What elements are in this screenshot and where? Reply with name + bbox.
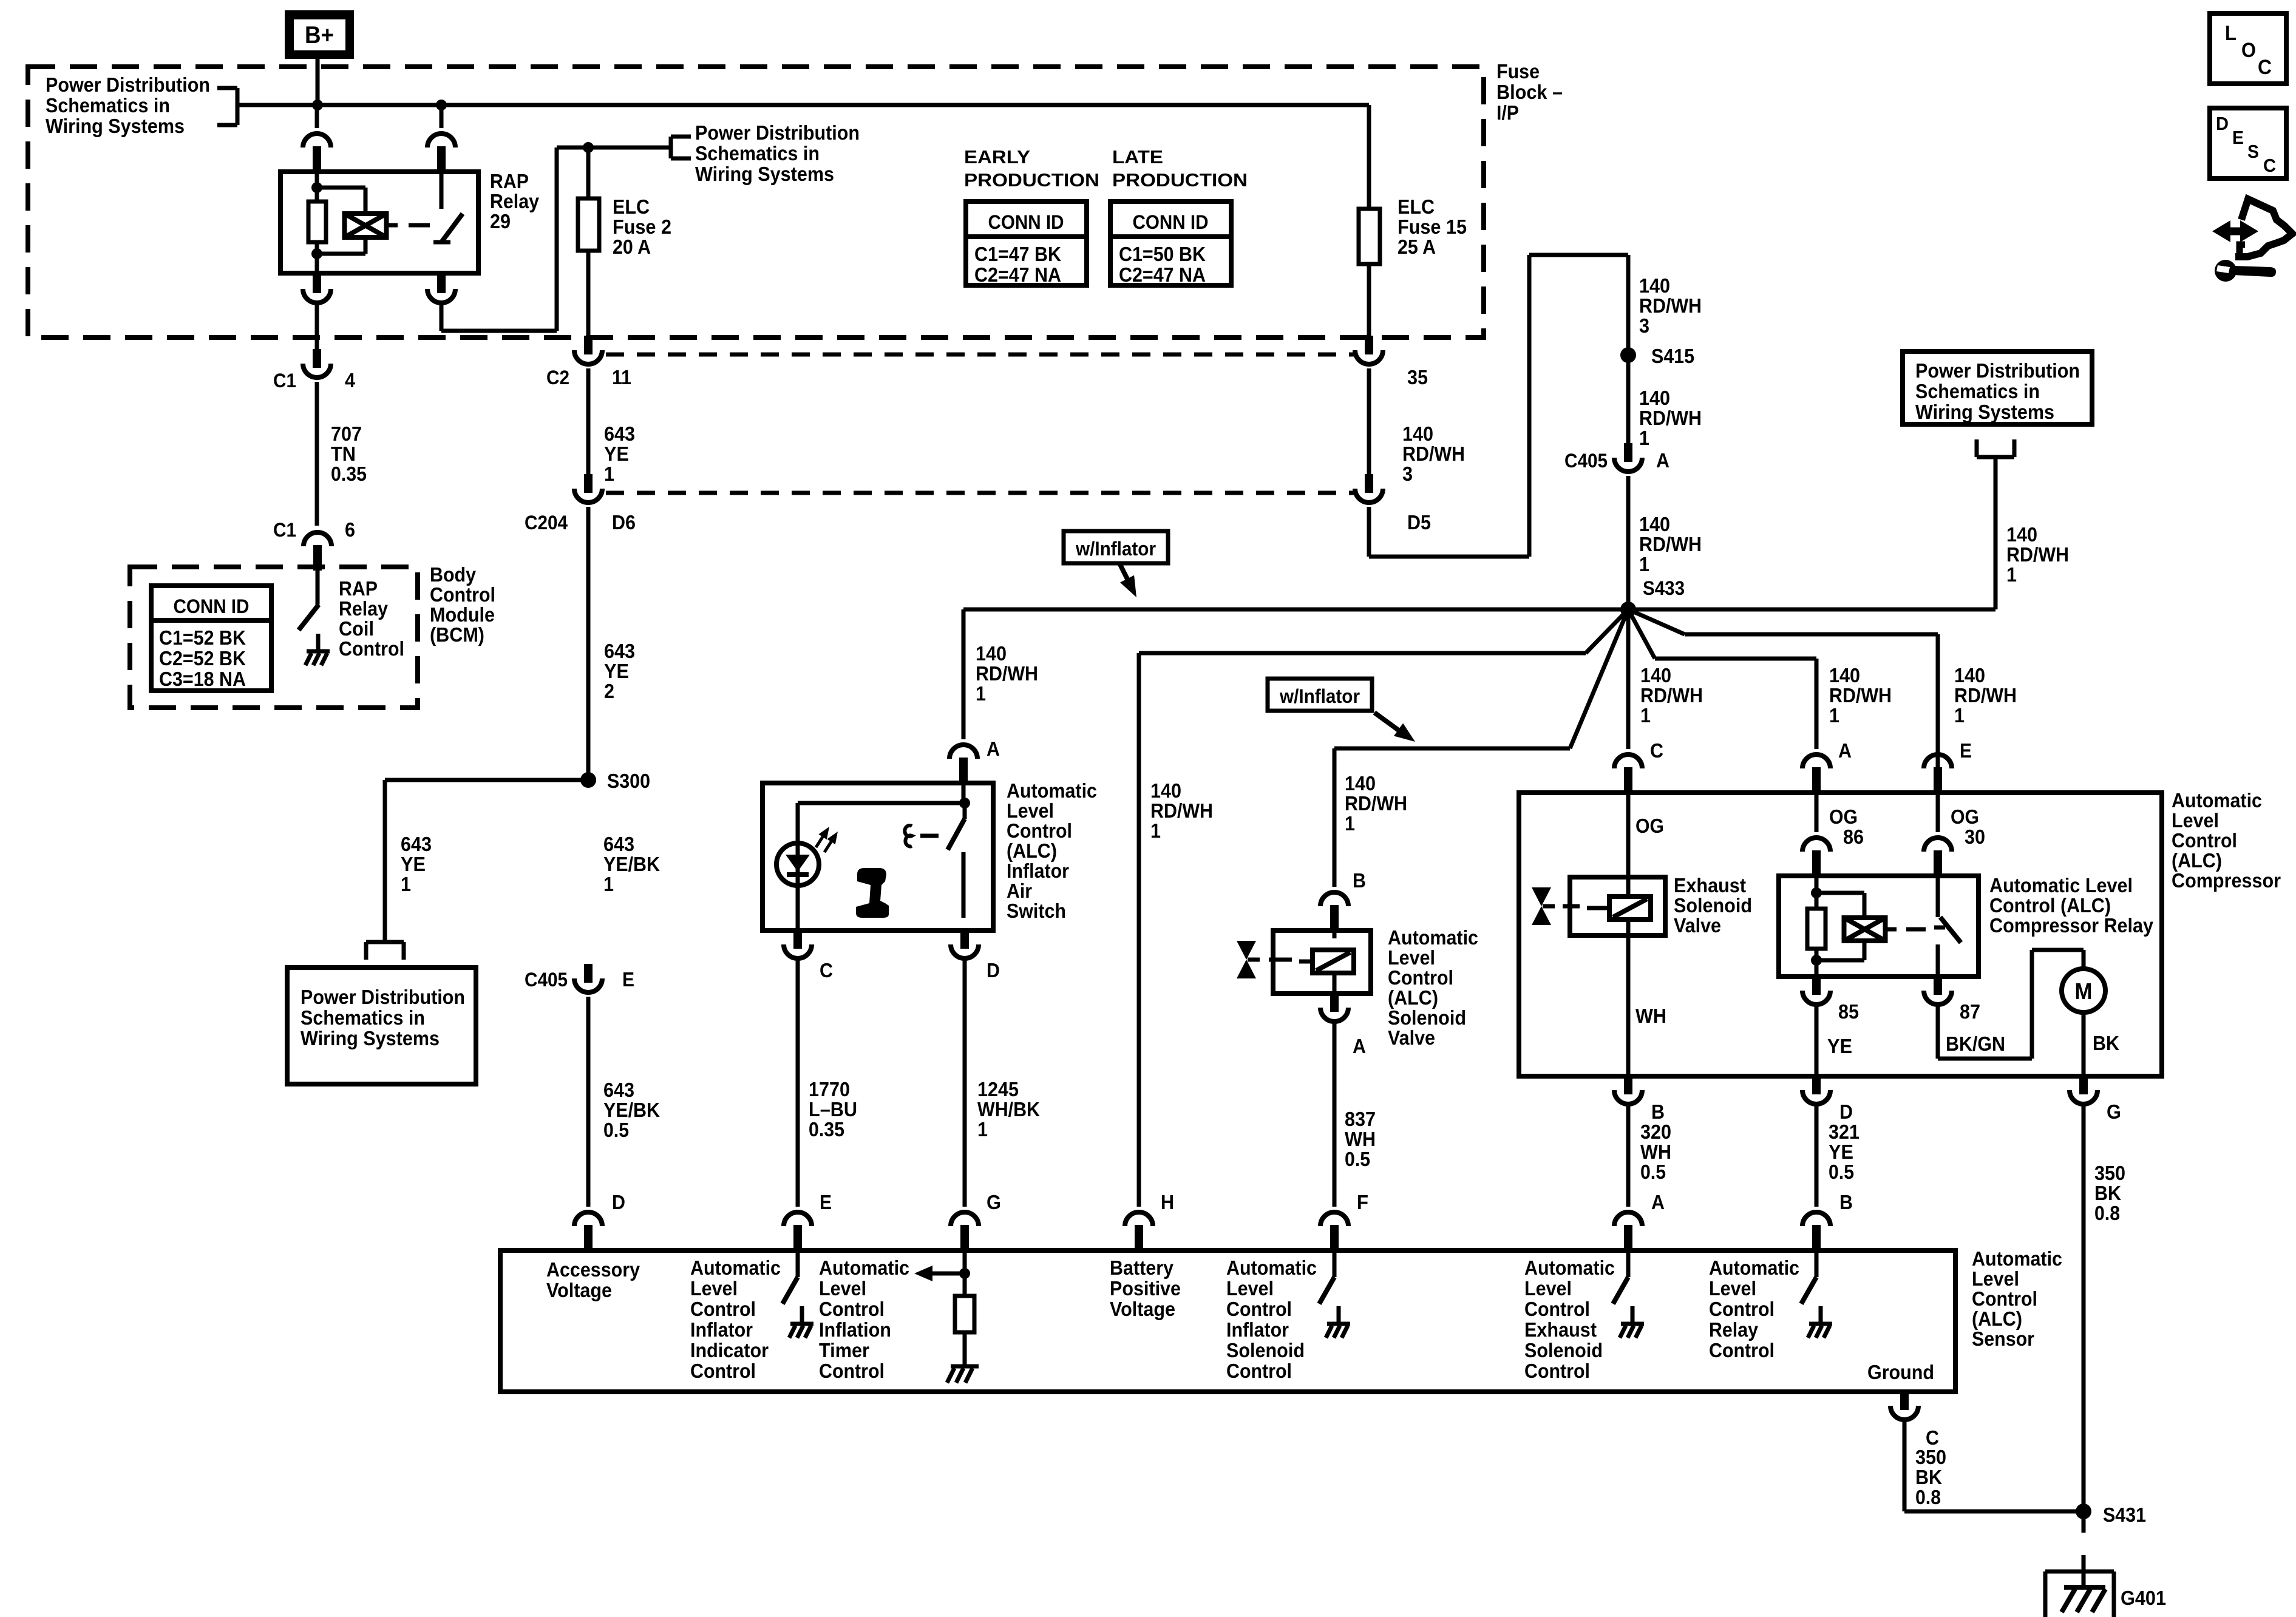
svg-text:643: 643 — [603, 833, 634, 855]
svg-text:C1: C1 — [273, 519, 296, 541]
svg-text:140: 140 — [1639, 513, 1670, 535]
svg-text:(ALC): (ALC) — [1388, 986, 1438, 1009]
svg-text:G: G — [987, 1191, 1001, 1213]
svg-text:140: 140 — [976, 642, 1007, 665]
svg-text:E: E — [820, 1191, 832, 1213]
svg-text:Timer: Timer — [819, 1339, 869, 1361]
svg-text:Control: Control — [339, 637, 404, 660]
svg-text:RD/WH: RD/WH — [1402, 442, 1465, 465]
svg-text:1: 1 — [1639, 427, 1649, 449]
svg-text:20 A: 20 A — [613, 236, 651, 258]
svg-text:RD/WH: RD/WH — [2006, 543, 2069, 566]
svg-text:1: 1 — [1345, 812, 1355, 835]
svg-text:1: 1 — [976, 682, 986, 705]
svg-text:1: 1 — [2006, 563, 2017, 586]
svg-text:Schematics in: Schematics in — [301, 1006, 425, 1029]
svg-text:140: 140 — [1640, 664, 1671, 686]
svg-text:OG: OG — [1951, 805, 1979, 828]
svg-text:(ALC): (ALC) — [2172, 849, 2222, 872]
svg-text:Schematics in: Schematics in — [695, 142, 820, 164]
svg-text:Control (ALC): Control (ALC) — [1989, 894, 2111, 917]
svg-text:Compressor: Compressor — [2172, 869, 2281, 892]
svg-text:Automatic: Automatic — [2172, 789, 2262, 812]
svg-text:Power Distribution: Power Distribution — [1915, 359, 2080, 382]
svg-text:Air: Air — [1007, 880, 1032, 902]
svg-text:Automatic: Automatic — [1524, 1256, 1615, 1279]
svg-text:Relay: Relay — [490, 190, 540, 212]
svg-text:140: 140 — [1402, 422, 1433, 445]
svg-text:H: H — [1161, 1191, 1174, 1213]
svg-text:Automatic: Automatic — [1972, 1247, 2062, 1270]
svg-text:S415: S415 — [1651, 345, 1694, 367]
svg-text:35: 35 — [1407, 366, 1428, 388]
svg-text:3: 3 — [1639, 314, 1649, 337]
svg-text:RD/WH: RD/WH — [1150, 799, 1213, 822]
svg-text:Level: Level — [1226, 1277, 1274, 1300]
svg-text:RD/WH: RD/WH — [1345, 792, 1407, 815]
svg-text:RD/WH: RD/WH — [1639, 533, 1702, 555]
svg-text:F: F — [1357, 1191, 1368, 1213]
svg-text:643: 643 — [604, 422, 635, 445]
svg-text:C204: C204 — [525, 512, 568, 534]
svg-text:140: 140 — [1829, 664, 1860, 686]
svg-text:A: A — [1838, 739, 1852, 762]
svg-text:YE: YE — [604, 442, 629, 465]
svg-text:Coil: Coil — [339, 617, 374, 640]
svg-text:D: D — [612, 1191, 625, 1213]
svg-text:11: 11 — [612, 366, 631, 388]
svg-text:Sensor: Sensor — [1972, 1327, 2034, 1350]
svg-text:0.5: 0.5 — [1640, 1161, 1666, 1183]
svg-text:PRODUCTION: PRODUCTION — [964, 169, 1099, 191]
svg-text:Positive: Positive — [1110, 1277, 1181, 1300]
svg-text:Solenoid: Solenoid — [1674, 894, 1752, 917]
svg-text:Solenoid: Solenoid — [1388, 1006, 1466, 1029]
svg-text:0.8: 0.8 — [1915, 1486, 1941, 1508]
svg-text:Control: Control — [1709, 1339, 1775, 1361]
svg-text:Control: Control — [1524, 1298, 1590, 1320]
svg-text:RAP: RAP — [490, 170, 529, 192]
svg-text:L: L — [2225, 22, 2237, 45]
svg-text:CONN ID: CONN ID — [174, 595, 250, 617]
svg-text:Automatic: Automatic — [1226, 1256, 1317, 1279]
svg-text:C2=47 NA: C2=47 NA — [974, 263, 1061, 286]
svg-text:Automatic Level: Automatic Level — [1989, 874, 2133, 897]
svg-text:350: 350 — [2094, 1162, 2125, 1184]
svg-text:S: S — [2247, 141, 2259, 162]
svg-text:WH: WH — [1640, 1141, 1671, 1163]
svg-text:Ground: Ground — [1867, 1361, 1934, 1383]
svg-text:1: 1 — [1829, 704, 1839, 727]
svg-text:Inflator: Inflator — [1226, 1318, 1289, 1341]
svg-text:M: M — [2075, 979, 2093, 1005]
svg-text:Inflation: Inflation — [819, 1318, 891, 1341]
svg-text:1770: 1770 — [809, 1078, 850, 1100]
svg-text:ELC: ELC — [1398, 195, 1435, 218]
svg-text:B: B — [1839, 1191, 1853, 1213]
svg-text:0.8: 0.8 — [2094, 1202, 2120, 1224]
svg-text:PRODUCTION: PRODUCTION — [1112, 169, 1248, 191]
svg-text:Control: Control — [430, 583, 495, 606]
svg-text:140: 140 — [1150, 779, 1181, 802]
svg-text:Level: Level — [1709, 1277, 1756, 1300]
svg-text:Schematics in: Schematics in — [46, 94, 170, 117]
svg-text:C3=18 NA: C3=18 NA — [159, 668, 246, 690]
svg-text:Block –: Block – — [1496, 81, 1563, 103]
svg-text:87: 87 — [1960, 1000, 1980, 1023]
svg-text:A: A — [987, 737, 1000, 760]
svg-text:B: B — [1651, 1100, 1665, 1123]
svg-text:BK/GN: BK/GN — [1946, 1032, 2005, 1055]
svg-text:C2=47 NA: C2=47 NA — [1119, 263, 1206, 286]
svg-text:Wiring Systems: Wiring Systems — [46, 115, 185, 137]
svg-text:WH/BK: WH/BK — [977, 1098, 1040, 1120]
svg-text:Control: Control — [1007, 819, 1072, 842]
svg-text:C1: C1 — [273, 370, 296, 392]
svg-text:1: 1 — [401, 873, 411, 895]
svg-text:643: 643 — [401, 833, 432, 855]
svg-text:RD/WH: RD/WH — [976, 662, 1038, 685]
svg-text:EARLY: EARLY — [964, 146, 1030, 168]
svg-text:1: 1 — [603, 873, 614, 895]
svg-text:1: 1 — [604, 463, 614, 485]
svg-text:TN: TN — [331, 442, 356, 465]
svg-text:1: 1 — [977, 1118, 988, 1141]
svg-text:140: 140 — [1639, 387, 1670, 409]
svg-text:Indicator: Indicator — [690, 1339, 769, 1361]
svg-text:Fuse 2: Fuse 2 — [613, 215, 671, 238]
svg-text:Wiring Systems: Wiring Systems — [301, 1027, 440, 1049]
svg-text:Control: Control — [690, 1298, 756, 1320]
svg-text:C: C — [2258, 56, 2272, 79]
svg-text:Relay: Relay — [1709, 1318, 1759, 1341]
svg-text:Accessory: Accessory — [546, 1258, 640, 1281]
svg-text:L–BU: L–BU — [809, 1098, 857, 1120]
svg-text:1245: 1245 — [977, 1078, 1019, 1100]
svg-text:Valve: Valve — [1674, 914, 1721, 937]
svg-text:Level: Level — [1524, 1277, 1572, 1300]
svg-text:D: D — [2216, 113, 2229, 134]
svg-text:BK: BK — [2094, 1182, 2121, 1204]
svg-text:0.35: 0.35 — [331, 463, 367, 485]
svg-text:Level: Level — [2172, 809, 2219, 832]
svg-text:(ALC): (ALC) — [1972, 1307, 2022, 1330]
svg-text:OG: OG — [1635, 815, 1664, 837]
svg-text:0.35: 0.35 — [809, 1118, 844, 1141]
svg-text:320: 320 — [1640, 1120, 1671, 1143]
svg-text:Inflator: Inflator — [1007, 859, 1069, 882]
svg-text:Power Distribution: Power Distribution — [695, 121, 860, 144]
svg-text:RAP: RAP — [339, 577, 378, 600]
svg-text:140: 140 — [2006, 523, 2037, 546]
svg-text:140: 140 — [1345, 772, 1376, 795]
svg-text:YE: YE — [604, 660, 629, 682]
svg-text:Automatic: Automatic — [690, 1256, 781, 1279]
svg-text:G401: G401 — [2121, 1587, 2166, 1609]
svg-text:E: E — [622, 968, 634, 991]
svg-text:1: 1 — [1150, 819, 1161, 842]
svg-text:1: 1 — [1639, 553, 1649, 575]
svg-text:Voltage: Voltage — [1110, 1298, 1175, 1320]
svg-text:0.5: 0.5 — [1829, 1161, 1854, 1183]
svg-text:(ALC): (ALC) — [1007, 839, 1057, 862]
svg-text:Automatic: Automatic — [1388, 926, 1478, 949]
svg-text:RD/WH: RD/WH — [1954, 684, 2017, 707]
svg-text:S431: S431 — [2103, 1503, 2146, 1526]
svg-text:Control: Control — [690, 1360, 756, 1382]
svg-text:Switch: Switch — [1007, 900, 1066, 922]
svg-text:Solenoid: Solenoid — [1524, 1339, 1603, 1361]
svg-text:RD/WH: RD/WH — [1829, 684, 1892, 707]
svg-text:C1=52 BK: C1=52 BK — [159, 626, 246, 649]
svg-text:Voltage: Voltage — [546, 1279, 612, 1301]
svg-text:Wiring Systems: Wiring Systems — [695, 163, 834, 185]
svg-text:E: E — [2232, 127, 2244, 148]
svg-text:Exhaust: Exhaust — [1674, 874, 1746, 897]
svg-text:B: B — [1353, 869, 1366, 892]
svg-text:Control: Control — [1226, 1298, 1292, 1320]
svg-text:YE: YE — [401, 853, 426, 875]
svg-text:Module: Module — [430, 603, 495, 626]
svg-text:B+: B+ — [305, 22, 334, 49]
svg-text:30: 30 — [1965, 825, 1985, 848]
svg-text:Solenoid: Solenoid — [1226, 1339, 1305, 1361]
svg-text:C1=50 BK: C1=50 BK — [1119, 243, 1206, 265]
svg-text:85: 85 — [1838, 1000, 1859, 1023]
svg-text:C405: C405 — [525, 969, 568, 991]
svg-text:Automatic: Automatic — [1007, 779, 1097, 802]
svg-text:Level: Level — [1388, 946, 1435, 969]
svg-text:(BCM): (BCM) — [430, 623, 484, 646]
svg-text:A: A — [1656, 449, 1669, 472]
svg-text:I/P: I/P — [1496, 101, 1519, 124]
svg-text:A: A — [1353, 1035, 1366, 1057]
svg-text:C: C — [820, 959, 833, 981]
svg-text:CONN ID: CONN ID — [988, 211, 1064, 233]
svg-text:BK: BK — [2093, 1032, 2119, 1054]
svg-text:1: 1 — [1640, 704, 1651, 727]
svg-text:YE/BK: YE/BK — [603, 853, 660, 875]
svg-text:D: D — [987, 959, 1000, 981]
svg-text:4: 4 — [345, 369, 356, 392]
svg-text:G: G — [2107, 1100, 2121, 1123]
svg-text:RD/WH: RD/WH — [1639, 294, 1702, 317]
svg-text:Control: Control — [2172, 829, 2237, 852]
svg-text:707: 707 — [331, 422, 362, 445]
svg-text:0.5: 0.5 — [1345, 1148, 1370, 1170]
svg-text:BK: BK — [1915, 1466, 1942, 1488]
svg-text:Control: Control — [1226, 1360, 1292, 1382]
svg-text:Battery: Battery — [1110, 1256, 1174, 1279]
svg-text:D: D — [1839, 1100, 1853, 1123]
svg-text:Relay: Relay — [339, 597, 389, 620]
svg-text:E: E — [1960, 739, 1972, 762]
svg-text:Body: Body — [430, 563, 477, 586]
svg-text:Compressor Relay: Compressor Relay — [1989, 914, 2154, 937]
svg-text:643: 643 — [604, 640, 635, 662]
svg-text:WH: WH — [1345, 1128, 1376, 1150]
svg-text:643: 643 — [603, 1079, 634, 1101]
svg-text:WH: WH — [1635, 1005, 1666, 1027]
svg-text:3: 3 — [1402, 463, 1413, 485]
svg-text:350: 350 — [1915, 1446, 1946, 1468]
svg-text:Automatic: Automatic — [1709, 1256, 1799, 1279]
svg-text:86: 86 — [1843, 825, 1864, 848]
svg-text:YE: YE — [1827, 1035, 1852, 1057]
svg-text:C2: C2 — [546, 367, 569, 388]
svg-text:Automatic: Automatic — [819, 1256, 909, 1279]
svg-text:w/Inflator: w/Inflator — [1279, 685, 1360, 707]
svg-text:RD/WH: RD/WH — [1640, 684, 1703, 707]
svg-text:1: 1 — [1954, 704, 1965, 727]
svg-text:Level: Level — [1007, 799, 1054, 822]
svg-text:D6: D6 — [612, 511, 636, 534]
svg-text:Control: Control — [1972, 1287, 2037, 1310]
svg-text:25 A: 25 A — [1398, 236, 1436, 258]
svg-text:Level: Level — [1972, 1267, 2019, 1290]
svg-text:A: A — [1651, 1191, 1665, 1213]
svg-text:837: 837 — [1345, 1108, 1376, 1130]
svg-text:C: C — [2263, 155, 2276, 176]
svg-text:C: C — [1650, 739, 1663, 762]
svg-text:Fuse 15: Fuse 15 — [1398, 215, 1467, 238]
svg-text:Schematics in: Schematics in — [1915, 380, 2040, 402]
svg-text:Control: Control — [1388, 966, 1453, 989]
svg-text:140: 140 — [1639, 274, 1670, 297]
svg-text:RD/WH: RD/WH — [1639, 407, 1702, 429]
svg-text:Control: Control — [819, 1298, 885, 1320]
svg-text:C1=47 BK: C1=47 BK — [974, 243, 1061, 265]
svg-text:Control: Control — [1709, 1298, 1775, 1320]
svg-text:D5: D5 — [1407, 511, 1431, 534]
svg-text:C2=52 BK: C2=52 BK — [159, 647, 246, 670]
svg-text:6: 6 — [345, 518, 355, 541]
svg-text:Valve: Valve — [1388, 1026, 1435, 1049]
svg-text:0.5: 0.5 — [603, 1119, 629, 1141]
svg-text:Inflator: Inflator — [690, 1318, 753, 1341]
svg-text:Power Distribution: Power Distribution — [46, 73, 210, 96]
svg-text:OG: OG — [1829, 805, 1858, 828]
svg-text:YE/BK: YE/BK — [603, 1099, 660, 1121]
svg-text:C405: C405 — [1564, 450, 1608, 472]
svg-text:2: 2 — [604, 680, 614, 702]
svg-text:321: 321 — [1829, 1120, 1860, 1143]
svg-text:Fuse: Fuse — [1496, 60, 1540, 83]
svg-text:29: 29 — [490, 210, 511, 232]
svg-text:YE: YE — [1829, 1141, 1853, 1163]
svg-text:LATE: LATE — [1112, 146, 1163, 168]
svg-text:S433: S433 — [1643, 577, 1685, 599]
svg-text:Power Distribution: Power Distribution — [301, 986, 465, 1008]
svg-text:O: O — [2241, 39, 2256, 62]
svg-text:S300: S300 — [607, 770, 650, 792]
svg-text:140: 140 — [1954, 664, 1985, 686]
svg-text:Exhaust: Exhaust — [1524, 1318, 1597, 1341]
svg-text:Control: Control — [819, 1360, 885, 1382]
svg-text:w/Inflator: w/Inflator — [1075, 538, 1156, 560]
svg-text:ELC: ELC — [613, 195, 650, 218]
svg-text:CONN ID: CONN ID — [1133, 211, 1209, 233]
svg-text:Level: Level — [690, 1277, 738, 1300]
svg-text:Control: Control — [1524, 1360, 1590, 1382]
svg-text:Level: Level — [819, 1277, 866, 1300]
svg-text:Wiring Systems: Wiring Systems — [1915, 401, 2054, 423]
